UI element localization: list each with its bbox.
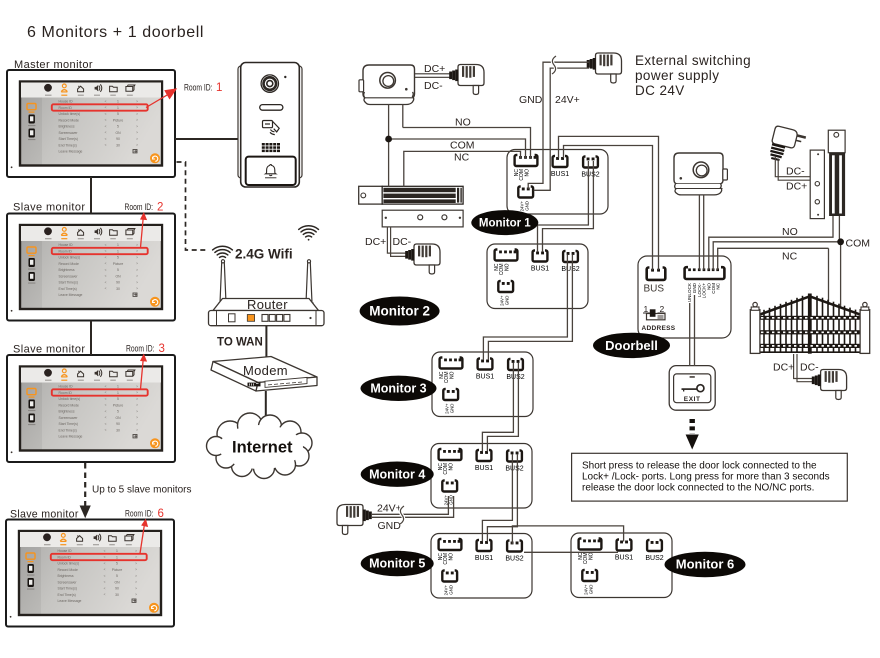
electric bolt lock top-left bbox=[359, 65, 415, 105]
svg-text:6: 6 bbox=[158, 508, 164, 520]
wire m4 power GND bbox=[371, 496, 454, 517]
svg-text:Modem: Modem bbox=[243, 363, 288, 378]
wire router-modem bbox=[265, 326, 267, 359]
arrow to room id 3 bbox=[140, 354, 147, 390]
vertical maglock: bracket plate bbox=[810, 150, 824, 219]
svg-text:EXIT: EXIT bbox=[684, 396, 701, 403]
svg-text:2.4G Wifi: 2.4G Wifi bbox=[235, 247, 293, 262]
svg-text:NO: NO bbox=[455, 117, 471, 129]
rfid card icon bbox=[263, 121, 280, 135]
svg-text:Doorbell: Doorbell bbox=[605, 338, 658, 353]
wire: lock1 left lead down to maglock bbox=[388, 105, 390, 187]
monitor4 power adapter bbox=[337, 505, 372, 535]
center post bbox=[808, 294, 812, 354]
wire m2-BUS2 to m3-BUS1 bbox=[483, 255, 567, 360]
wifi symbol left bbox=[213, 246, 233, 261]
dashed wire master to wifi bbox=[177, 162, 209, 250]
speaker slot bbox=[260, 105, 283, 111]
svg-text:power supply: power supply bbox=[635, 68, 719, 83]
svg-text:NC: NC bbox=[782, 251, 798, 263]
svg-text:Monitor 2: Monitor 2 bbox=[369, 304, 430, 319]
svg-text:GND: GND bbox=[519, 94, 543, 106]
DC plug top-left bbox=[449, 65, 484, 95]
wire m4-BUS2 to m5-BUS1 bbox=[482, 454, 512, 542]
svg-text:1: 1 bbox=[216, 82, 222, 94]
svg-text:Room ID:: Room ID: bbox=[125, 509, 154, 520]
svg-text:COM: COM bbox=[846, 238, 871, 250]
maglock horizontal bbox=[359, 186, 463, 227]
svg-text:DC-: DC- bbox=[786, 166, 805, 178]
monitor 5 ellipse bbox=[361, 551, 434, 576]
monitor 3 ellipse bbox=[361, 376, 437, 401]
wire break symbol m4 bbox=[400, 506, 404, 524]
pickets bbox=[764, 296, 856, 352]
svg-text:Monitor 4: Monitor 4 bbox=[369, 467, 425, 481]
wire 24V+ from supply to m1 bbox=[534, 68, 589, 190]
svg-text:ADDRESS: ADDRESS bbox=[642, 325, 676, 332]
arrow to room id 2 bbox=[140, 212, 147, 248]
monitor 6 ellipse bbox=[665, 552, 746, 577]
thick dashed arrow bbox=[690, 419, 695, 434]
svg-text:NO: NO bbox=[782, 226, 798, 238]
junction dot COM left bbox=[385, 136, 392, 143]
svg-text:3: 3 bbox=[159, 343, 165, 355]
monitor 1 block bbox=[507, 150, 608, 215]
svg-text:6 Monitors + 1 doorbell: 6 Monitors + 1 doorbell bbox=[27, 24, 204, 41]
svg-text:NC: NC bbox=[454, 152, 470, 164]
wire COM to m1 connector bbox=[389, 139, 526, 158]
svg-text:COM: COM bbox=[450, 140, 475, 152]
monitor 4 block bbox=[431, 444, 532, 509]
svg-text:release the door lock connecte: release the door lock connected to the N… bbox=[582, 483, 814, 494]
vertical maglock: magnet with top plate bbox=[828, 130, 845, 153]
arrow to room id 6 bbox=[140, 519, 148, 554]
camera bbox=[261, 75, 278, 92]
junction dot COM right bbox=[837, 238, 844, 245]
svg-text:DC-: DC- bbox=[424, 80, 443, 92]
internet cloud bbox=[207, 413, 313, 479]
wire m4 power 24V+ bbox=[371, 496, 448, 514]
svg-text:Internet: Internet bbox=[232, 439, 293, 457]
gate wires to plug bbox=[794, 354, 813, 379]
svg-text:24V+: 24V+ bbox=[377, 503, 402, 515]
wire NC right bbox=[718, 248, 829, 270]
master monitor bbox=[7, 70, 175, 177]
arrow to room id 1 bbox=[146, 88, 177, 107]
BUS connector bbox=[647, 268, 666, 280]
monitor 5 block bbox=[431, 534, 532, 599]
doorbell ellipse label bbox=[593, 333, 670, 358]
diagonal top rails bbox=[759, 297, 809, 315]
router body bbox=[213, 299, 319, 311]
wire m1-BUS2 to m2-BUS1 bbox=[538, 161, 589, 252]
svg-text:Slave monitor: Slave monitor bbox=[13, 344, 85, 356]
monitor 6 block bbox=[571, 533, 672, 598]
svg-text:2: 2 bbox=[157, 202, 163, 214]
svg-text:Room ID:: Room ID: bbox=[126, 344, 155, 355]
svg-text:Monitor 5: Monitor 5 bbox=[369, 557, 425, 571]
maglock wires to its plug bbox=[387, 227, 406, 253]
wire slave2 to slave3 bbox=[90, 321, 92, 356]
svg-text:DC+: DC+ bbox=[365, 236, 386, 248]
svg-text:NC: NC bbox=[715, 282, 720, 289]
monitor 2 ellipse bbox=[360, 297, 440, 326]
slave monitor 2 bbox=[7, 214, 175, 321]
svg-text:External switching: External switching bbox=[635, 53, 751, 68]
wire GND to exit button bbox=[694, 295, 696, 366]
gate bbox=[750, 294, 869, 354]
right antenna bbox=[306, 263, 312, 304]
svg-text:Monitor 6: Monitor 6 bbox=[676, 557, 735, 572]
wire m3-BUS2 to m4-BUS1 bbox=[482, 363, 513, 452]
speaker grille bbox=[262, 143, 280, 152]
slave monitor 6 bbox=[6, 520, 174, 627]
instruction text box bbox=[572, 453, 848, 501]
doorbell body bbox=[241, 63, 300, 188]
wire break symbol bbox=[552, 56, 556, 74]
dashed arrow slave3 to slave6 bbox=[84, 463, 86, 506]
left antenna bbox=[220, 263, 226, 304]
adapter wires to maglock bracket bbox=[775, 157, 810, 177]
wire GND from supply to m1 bbox=[528, 62, 589, 189]
7-pin labels bbox=[687, 282, 720, 302]
svg-text:Short press to release the doo: Short press to release the door lock con… bbox=[582, 461, 817, 472]
wire master to door unit bbox=[175, 138, 241, 140]
svg-text:Monitor 3: Monitor 3 bbox=[370, 382, 426, 396]
wire UNLOCK to exit button bbox=[689, 303, 691, 366]
svg-text:Room ID:: Room ID: bbox=[125, 202, 154, 213]
svg-text:DC-: DC- bbox=[393, 236, 412, 248]
svg-text:DC+: DC+ bbox=[773, 362, 794, 374]
7-pin connector bbox=[685, 267, 725, 279]
wire COM right maglock bbox=[713, 216, 840, 270]
svg-text:GND: GND bbox=[378, 520, 402, 532]
svg-text:DC 24V: DC 24V bbox=[635, 83, 685, 98]
svg-text:Room ID:: Room ID: bbox=[184, 83, 213, 94]
modem bbox=[211, 357, 317, 392]
svg-text:DC-: DC- bbox=[800, 362, 819, 374]
svg-text:DC+: DC+ bbox=[786, 181, 807, 193]
svg-text:Lock+ /Lock- ports. Long press: Lock+ /Lock- ports. Long press for more … bbox=[582, 472, 830, 483]
lock wires to plug bbox=[415, 73, 452, 75]
wire NO to m1 connector bbox=[403, 128, 531, 159]
svg-text:Monitor 1: Monitor 1 bbox=[479, 218, 531, 230]
wire m1-BUS1 to doorbell BUS bbox=[559, 136, 659, 270]
monitor 1 ellipse bbox=[471, 210, 538, 235]
24V supply plug bbox=[587, 53, 622, 83]
monitor 3 block bbox=[432, 352, 533, 417]
right AC adapter bbox=[768, 126, 807, 166]
svg-text:24V+: 24V+ bbox=[555, 94, 580, 106]
svg-text:DC+: DC+ bbox=[424, 63, 445, 75]
wires down to gate (behind gate) bbox=[828, 248, 830, 305]
svg-text:Router: Router bbox=[247, 297, 288, 312]
wire modem-internet bbox=[265, 391, 267, 428]
exit button bbox=[669, 366, 715, 411]
horizontal rails with white dots bbox=[760, 316, 861, 352]
armature plate bbox=[382, 210, 463, 227]
doorbell connector block bbox=[638, 256, 731, 338]
svg-text:Up to 5 slave monitors: Up to 5 slave monitors bbox=[92, 485, 192, 496]
wire: lock1 right lead down to NO bbox=[402, 105, 404, 128]
svg-text:BUS: BUS bbox=[644, 284, 665, 295]
svg-text:TO WAN: TO WAN bbox=[217, 337, 263, 349]
bell button panel bbox=[246, 157, 296, 185]
wire lock2 to LOCK+/LOCK- pins bbox=[698, 195, 700, 270]
wire NC to m1 connector bbox=[404, 151, 521, 186]
svg-text:Slave monitor: Slave monitor bbox=[13, 202, 85, 214]
bell icon bbox=[266, 165, 276, 174]
wire NO right maglock bbox=[709, 216, 833, 270]
monitor 2 block bbox=[487, 244, 588, 309]
electric lock above doorbell block bbox=[674, 153, 727, 195]
wifi symbol right bbox=[299, 226, 319, 241]
wire master to slave2 bbox=[90, 177, 92, 214]
side flanges bbox=[238, 66, 302, 178]
wire m5-BUS2 to m6-BUS1 bbox=[512, 526, 623, 544]
slave monitor 3 bbox=[7, 355, 175, 462]
monitor 4 ellipse bbox=[361, 462, 434, 487]
pillars bbox=[750, 310, 760, 354]
